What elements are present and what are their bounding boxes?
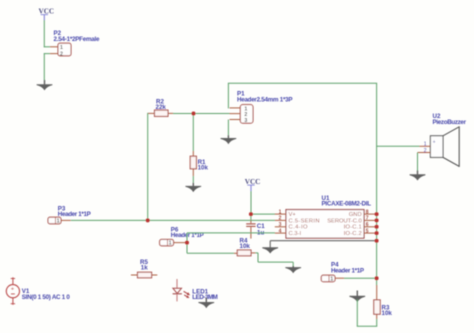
svg-text:LED-3MM: LED-3MM (192, 294, 218, 301)
wire P4 to right rail (344, 277, 377, 279)
svg-text:1: 1 (57, 219, 60, 225)
svg-text:+: + (11, 286, 14, 292)
right pin stubs (364, 213, 377, 215)
wire P6 up to pin4 net (186, 233, 188, 243)
wire P2 pin1 stub (44, 46, 50, 48)
ground (right of R4) (285, 266, 301, 273)
wire VCC to P2 pin1 (43, 20, 45, 47)
LED LED1 (173, 279, 218, 301)
svg-text:1: 1 (60, 45, 63, 51)
ground (left of R3, on wire) (349, 291, 365, 327)
svg-text:V+: V+ (289, 212, 297, 218)
svg-text:1k: 1k (141, 265, 148, 272)
wire R1 bottom to ground (192, 176, 194, 183)
svg-text:2: 2 (279, 216, 282, 222)
svg-text:8: 8 (366, 209, 369, 215)
wire buzzer pin2 down to ground (417, 153, 419, 171)
junction GND line on right rail (375, 239, 379, 243)
svg-text:5: 5 (366, 228, 369, 234)
junction VCC/C1/U1-V+ node (249, 212, 253, 216)
svg-text:10k: 10k (240, 243, 251, 250)
svg-text:C.4-IO: C.4-IO (289, 225, 308, 231)
junction P4 on right rail (375, 276, 379, 280)
ground (below U2) (410, 171, 426, 181)
svg-text:2: 2 (424, 148, 427, 154)
svg-text:1: 1 (279, 209, 282, 215)
connector P2 (54, 30, 101, 57)
svg-text:6: 6 (366, 222, 369, 228)
junction U1 pin6 on right rail (375, 225, 379, 229)
wire to U1 pin4 (187, 232, 275, 234)
connector P1 (230, 91, 293, 124)
connector P4 (321, 262, 364, 283)
svg-text:4: 4 (279, 228, 282, 234)
wire right rail to buzzer pin1 (377, 145, 420, 147)
wire ground to R3 bottom (357, 325, 377, 327)
wire R2 left down to P3 net (147, 113, 149, 220)
junction R2/P1/R1 node (192, 112, 196, 116)
svg-text:+: + (433, 139, 436, 145)
buzzer U2 (418, 113, 467, 167)
connector P3 (48, 205, 91, 224)
svg-text:1: 1 (169, 241, 172, 247)
wire P2 pin2 to ground (43, 53, 45, 80)
svg-text:3: 3 (279, 222, 282, 228)
junction U1 pin5 on right rail (375, 231, 379, 235)
ground (below R1) (185, 183, 201, 192)
resistor R3 (374, 285, 393, 326)
svg-text:Header2.54mm 1*3P: Header2.54mm 1*3P (237, 96, 293, 103)
wire P2 pin2 stub (44, 53, 50, 55)
source V1 (6, 277, 70, 305)
wire junction down to R1 (192, 114, 194, 152)
wire R2 right to P1 pin2 (173, 113, 230, 115)
wire VCC down to V+ node (250, 191, 252, 214)
svg-text:IO-C.2: IO-C.2 (344, 231, 362, 237)
wire R4 right to ground (255, 252, 258, 254)
svg-text:PiezoBuzzer: PiezoBuzzer (433, 119, 467, 126)
wire P3 to U1 pin2 (71, 219, 275, 221)
svg-text:10k: 10k (198, 164, 209, 171)
wire right rail down (376, 83, 378, 285)
svg-text:Header 1*1P: Header 1*1P (331, 267, 364, 274)
wire P1 pin1 up and across top (227, 83, 229, 108)
supply VCC (top-left) (39, 8, 55, 21)
svg-text:GND: GND (349, 212, 362, 218)
resistor R4 (234, 238, 255, 256)
resistor R1 (190, 151, 208, 176)
resistor R5 (131, 259, 157, 278)
wire P1 pin3 to ground (227, 120, 229, 136)
junction U1 pin7 on right rail (375, 218, 379, 222)
svg-text:Header 1*1P: Header 1*1P (58, 211, 91, 218)
svg-text:2.54-1*2PFemale: 2.54-1*2PFemale (54, 36, 101, 43)
svg-text:C.3-I: C.3-I (289, 231, 302, 237)
ground (below P2) (37, 80, 53, 90)
ground (below U1) (262, 247, 278, 253)
svg-text:SEROUT-C.0: SEROUT-C.0 (327, 218, 362, 224)
svg-text:1: 1 (330, 277, 333, 283)
pin stubs (230, 107, 241, 109)
wire junction to U1 pin1 (251, 213, 275, 215)
IC U1 (275, 195, 377, 238)
connector P6 (160, 227, 204, 247)
svg-text:C.5-SERIN: C.5-SERIN (289, 218, 320, 224)
ground (below LED1, floating) (198, 298, 214, 309)
resistor R2 (148, 98, 174, 116)
svg-text:IO-C.1: IO-C.1 (344, 225, 362, 231)
capacitor C1 (246, 214, 265, 239)
svg-text:10k: 10k (382, 310, 393, 317)
wire P6 down to R4 (186, 243, 188, 254)
GND net line (dark) (270, 240, 376, 242)
svg-text:PICAXE-08M2-DIL: PICAXE-08M2-DIL (322, 201, 372, 208)
junction U1 pin8 on right rail (375, 212, 379, 216)
supply VCC (above U1) (245, 178, 261, 191)
junction P6 node (185, 241, 189, 245)
emission arrows (183, 290, 191, 296)
svg-text:3: 3 (244, 118, 247, 124)
ground (below P1) (221, 135, 237, 144)
svg-text:2: 2 (60, 51, 63, 57)
svg-text:7: 7 (366, 216, 369, 222)
svg-text:SIN(0 1 50) AC 1 0: SIN(0 1 50) AC 1 0 (22, 294, 71, 301)
junction P3/R2 node (146, 218, 150, 222)
left pin stubs (275, 213, 286, 215)
